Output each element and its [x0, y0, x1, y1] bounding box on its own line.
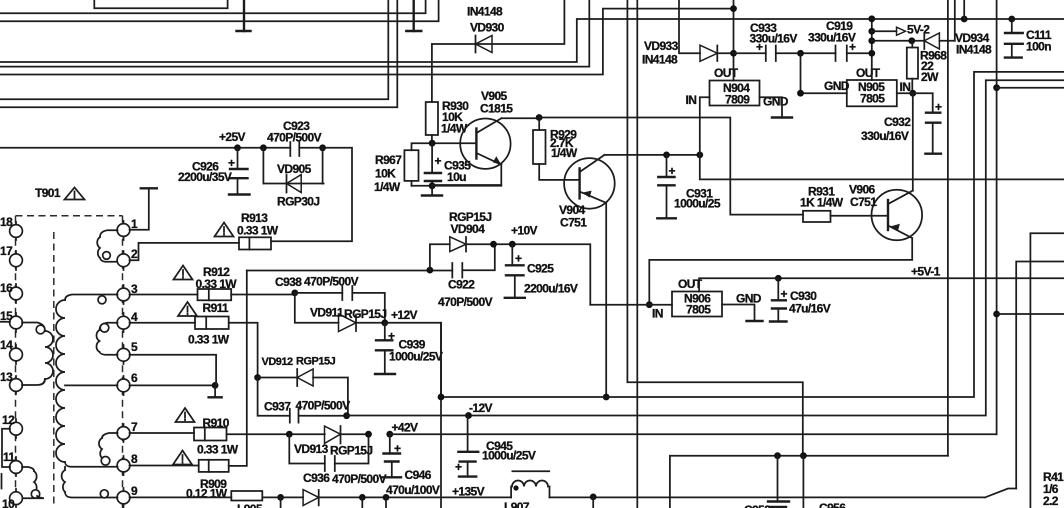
- wire collector rail to right edge: [700, 155, 1064, 180]
- svg-text:GND: GND: [824, 79, 850, 93]
- svg-text:17: 17: [0, 244, 13, 258]
- svg-text:5V-2: 5V-2: [907, 23, 930, 37]
- wire R968/VD934 line: [872, 40, 925, 42]
- svg-text:C751: C751: [850, 195, 877, 209]
- pin 1: [123, 221, 125, 240]
- diode VD904 RGP15J: [430, 210, 590, 305]
- pin 7: [123, 424, 125, 442]
- svg-text:VD913: VD913: [294, 442, 329, 456]
- svg-text:14: 14: [0, 338, 13, 352]
- bottom rail from pin9: [130, 496, 232, 498]
- capacitor C945 1000u/25V: [452, 416, 536, 499]
- svg-text:11: 11: [3, 450, 15, 464]
- capacitor C937 470P/500V: [258, 378, 350, 423]
- svg-text:7: 7: [131, 420, 138, 434]
- svg-text:13: 13: [0, 370, 13, 384]
- svg-text:RGP15J: RGP15J: [344, 307, 386, 321]
- node bottom rail 3: [383, 494, 390, 501]
- svg-text:7805: 7805: [686, 303, 711, 317]
- ground symbol x414: [413, 0, 415, 31]
- winding S1 (pin3-pin8 main): [65, 295, 118, 301]
- winding S0 (pin1-pin2): [100, 230, 118, 237]
- resistor R912 0.33 1W: [130, 265, 295, 300]
- svg-text:GND: GND: [736, 292, 762, 306]
- capacitor C933 330u/16V: [734, 21, 836, 61]
- node N904 IN: [696, 152, 703, 159]
- diode bottom rail: [303, 490, 319, 506]
- wire pin15 to left edge: [0, 321, 10, 323]
- svg-text:VD905: VD905: [277, 162, 312, 176]
- transistor V904 C751: [559, 155, 615, 230]
- node -12V start: [343, 412, 350, 419]
- inductor L905 (partial): [231, 491, 262, 501]
- wire +12V to rail: [385, 323, 441, 397]
- svg-text:C956: C956: [819, 501, 846, 508]
- capacitor C919 330u/16V: [808, 19, 872, 61]
- winding P2 (pin11-pin10): [22, 467, 34, 471]
- svg-text:IN: IN: [900, 80, 911, 94]
- svg-text:C938: C938: [275, 275, 302, 289]
- svg-text:IN4148: IN4148: [642, 53, 678, 67]
- svg-text:C946: C946: [405, 468, 432, 482]
- svg-text:RGP15J: RGP15J: [296, 356, 336, 368]
- node +42V: [386, 431, 393, 438]
- svg-text:+: +: [669, 164, 676, 178]
- wire pin12-pin11 left link: [2, 429, 10, 467]
- chassis bar above pin1: [141, 187, 157, 189]
- svg-text:6: 6: [131, 371, 138, 385]
- svg-text:C952: C952: [744, 503, 771, 508]
- pin 8: [123, 456, 125, 475]
- node N905 IN: [909, 90, 916, 97]
- svg-text:0.33 1W: 0.33 1W: [188, 333, 230, 347]
- wire pin6 to ground: [130, 384, 216, 386]
- transformer dashed boundary: [16, 215, 123, 217]
- resistor R913 0.33 1W: [237, 211, 279, 250]
- warning triangle R912: [174, 266, 193, 280]
- svg-text:VD904: VD904: [451, 222, 486, 236]
- wire V905 collector line to V906 base leg: [539, 118, 803, 215]
- winding S4 (pin8-pin9): [62, 470, 65, 492]
- svg-text:R911: R911: [203, 301, 230, 315]
- svg-text:C751: C751: [560, 216, 587, 230]
- rail +5V-2 vertical stubs at top right: [947, 0, 949, 456]
- warning triangle R911: [178, 302, 197, 316]
- wire +12V rail: [441, 72, 1064, 397]
- svg-text:+: +: [935, 100, 942, 114]
- wire bus B2: [0, 0, 589, 67]
- wire N904 IN leg: [700, 97, 710, 155]
- svg-text:18: 18: [0, 215, 13, 229]
- transformer core dashed line: [53, 232, 55, 508]
- svg-text:VD930: VD930: [470, 21, 505, 35]
- transistor V906 C751: [849, 183, 922, 241]
- node V905 base: [429, 140, 436, 147]
- svg-text:0.33 1W: 0.33 1W: [237, 224, 279, 238]
- diode VD930 IN4148: [432, 0, 564, 53]
- svg-text:L905: L905: [237, 502, 263, 508]
- regulator N906 7805: [652, 277, 762, 321]
- pin 2: [123, 251, 125, 270]
- svg-text:IN4148: IN4148: [956, 43, 992, 57]
- svg-text:C922: C922: [448, 278, 475, 292]
- big block border corner right: [1030, 233, 1064, 508]
- wire long vertical A (to line A): [627, 0, 802, 456]
- svg-text:10u: 10u: [447, 170, 466, 184]
- svg-text:12: 12: [2, 413, 15, 427]
- svg-text:+: +: [228, 156, 235, 170]
- capacitor C938 470P/500V: [275, 275, 385, 323]
- svg-text:5: 5: [131, 340, 138, 354]
- warning triangle T901: [65, 188, 85, 200]
- wire V904 collector line: [605, 154, 700, 156]
- wire V906 collector leg: [912, 93, 914, 190]
- winding S2 (pin4-pin5): [100, 323, 118, 330]
- capacitor C931 1000u/25: [657, 152, 721, 219]
- wire stub left edge lower: [1, 474, 3, 489]
- wire bus B1 to +5V-2 rail: [0, 19, 1064, 62]
- pin 12: [15, 419, 17, 438]
- svg-text:RGP15J: RGP15J: [330, 444, 372, 458]
- wire pin5 to ground node: [130, 355, 217, 386]
- capacitor C952 (partial bottom): [744, 456, 789, 508]
- resistor R909 0.12 1W: [130, 271, 247, 501]
- svg-text:330u/16V: 330u/16V: [861, 129, 909, 143]
- svg-text:RGP30J: RGP30J: [277, 195, 319, 209]
- resistor R930 10K 1/4W: [426, 44, 470, 143]
- capacitor C930 47u/16V: [770, 275, 831, 322]
- node C938/VD911 left: [291, 290, 298, 297]
- node V905 emitter: [429, 182, 436, 189]
- wire bus line y21: [0, 0, 439, 21]
- svg-text:10K: 10K: [375, 167, 396, 181]
- resistor R931 1K 1/4W: [800, 185, 888, 223]
- svg-text:7809: 7809: [725, 93, 750, 107]
- svg-text:VD912: VD912: [262, 356, 294, 368]
- svg-text:1K 1/4W: 1K 1/4W: [800, 196, 844, 210]
- pin 5: [123, 345, 125, 364]
- svg-text:L907: L907: [504, 500, 530, 508]
- svg-text:47u/16V: 47u/16V: [789, 302, 831, 316]
- svg-text:VD933: VD933: [644, 39, 679, 53]
- capacitor C925 2200u/16V: [505, 244, 578, 298]
- svg-text:7805: 7805: [860, 92, 885, 106]
- svg-text:IN: IN: [652, 307, 663, 321]
- svg-text:1/4W: 1/4W: [551, 146, 578, 160]
- svg-text:+: +: [394, 442, 401, 456]
- svg-text:470P/500V: 470P/500V: [267, 131, 322, 145]
- capacitor C939 1000u/25V: [375, 323, 443, 374]
- wire corner y99: [0, 0, 388, 99]
- pin 14: [15, 345, 17, 364]
- winding P1 (pin15-pin13): [22, 323, 45, 332]
- capacitor C922 470P/500V: [438, 244, 495, 309]
- capacitor C926 2200u/35V: [178, 148, 250, 195]
- pin 13: [15, 376, 17, 394]
- svg-text:15: 15: [0, 309, 13, 323]
- capacitor C946 470u/100V: [382, 434, 440, 497]
- node bottom rail 4: [590, 494, 597, 501]
- regulator N904 7809: [686, 66, 789, 109]
- svg-text:+10V: +10V: [511, 224, 538, 238]
- svg-text:C932: C932: [884, 115, 911, 129]
- svg-text:2200u/35V: 2200u/35V: [178, 170, 232, 184]
- wire +10V into IN node: [590, 304, 672, 306]
- svg-text:8: 8: [131, 452, 138, 466]
- wire corner y107: [0, 0, 397, 107]
- diode VD934 IN4148: [924, 0, 992, 57]
- resistor R929 2.7K 1/4W: [533, 118, 580, 180]
- inductor L907: [504, 471, 550, 508]
- svg-text:470P/500V: 470P/500V: [296, 399, 351, 413]
- wire bottom rail rise to right riser: [985, 489, 1016, 498]
- warning triangle R910: [176, 408, 195, 422]
- wire N906 GND to ground: [722, 305, 755, 322]
- svg-text:2: 2: [131, 247, 138, 261]
- svg-text:1/4W: 1/4W: [441, 122, 468, 136]
- pin 10: [15, 489, 17, 507]
- +25V rail: [0, 130, 352, 241]
- svg-text:+42V: +42V: [392, 421, 419, 435]
- svg-text:VD911: VD911: [310, 306, 344, 320]
- capacitor C923 470P/500V: [267, 119, 322, 156]
- svg-text:330u/16V: 330u/16V: [750, 32, 798, 46]
- svg-text:R967: R967: [375, 153, 402, 167]
- wire N904 GND to ground: [760, 97, 783, 117]
- resistor R968 22 2W: [907, 41, 947, 93]
- svg-text:470P/500V: 470P/500V: [304, 275, 359, 289]
- warning triangle R913: [215, 223, 234, 237]
- label 5V-2 with arrow: [872, 23, 930, 37]
- wire +42V riser to right edge taps: [996, 0, 998, 434]
- svg-text:1000u/25V: 1000u/25V: [389, 350, 443, 364]
- svg-text:R910: R910: [203, 416, 230, 430]
- svg-text:C1815: C1815: [480, 102, 513, 116]
- svg-text:+5V-1: +5V-1: [911, 265, 941, 279]
- node VD912 left: [254, 374, 261, 381]
- svg-text:1000u/25V: 1000u/25V: [482, 449, 536, 463]
- diode VD911 RGP15J: [295, 293, 387, 332]
- capacitor C936 470P/500V: [289, 431, 386, 486]
- capacitor C956 (partial bottom): [803, 456, 846, 508]
- svg-text:10: 10: [2, 497, 15, 508]
- svg-text:OUT: OUT: [856, 66, 881, 80]
- wire N905 OUT leg: [871, 19, 873, 80]
- capacitor C932 330u/16V: [861, 93, 942, 154]
- diode VD912 RGP15J: [258, 356, 348, 416]
- wire +42V rail: [390, 433, 997, 435]
- node bottom rail 1: [277, 494, 284, 501]
- svg-text:2.2: 2.2: [1043, 494, 1059, 508]
- svg-text:2200u/16V: 2200u/16V: [524, 282, 578, 296]
- resistor R910 0.33 1W: [130, 416, 325, 457]
- diode VD905 RGP30J: [263, 148, 323, 209]
- pin 3: [123, 285, 125, 304]
- svg-text:T901: T901: [35, 186, 61, 200]
- diode VD933 IN4148: [642, 0, 734, 67]
- transistor V905 C1815: [432, 89, 539, 185]
- svg-text:9: 9: [131, 484, 138, 498]
- svg-text:330u/16V: 330u/16V: [808, 31, 856, 45]
- svg-text:470P/500V: 470P/500V: [438, 295, 493, 309]
- capacitor C111 100n: [1005, 16, 1052, 58]
- wire line E (+5V-2 feed): [670, 456, 948, 508]
- pin 11: [15, 457, 17, 476]
- svg-text:100n: 100n: [1026, 40, 1051, 54]
- svg-text:+25V: +25V: [219, 130, 246, 144]
- svg-text:OUT: OUT: [714, 66, 739, 80]
- winding S3 (pin7-pin8): [102, 433, 118, 438]
- partial component box top-left: [94, 0, 227, 8]
- wire pin6 tap: [65, 384, 118, 386]
- capacitor C935 10u: [425, 143, 471, 186]
- wire V906 emitter to N906 IN: [649, 238, 912, 305]
- pin 15: [15, 313, 17, 332]
- svg-text:+: +: [435, 154, 442, 168]
- wire pin2 to R913: [130, 243, 240, 260]
- svg-text:16: 16: [0, 281, 13, 295]
- resistor R967 10K 1/4W: [374, 143, 501, 194]
- svg-text:+135V: +135V: [452, 485, 485, 499]
- ground symbol x244: [243, 0, 245, 31]
- node bottom rail 2: [359, 494, 366, 501]
- svg-text:+: +: [388, 329, 395, 343]
- pin 17: [15, 251, 17, 270]
- node N906 IN: [646, 301, 653, 308]
- svg-text:0.33 1W: 0.33 1W: [197, 443, 239, 457]
- wire C933/C919 node to N905 GND: [801, 53, 847, 93]
- svg-text:1/4W: 1/4W: [374, 180, 401, 194]
- svg-text:-12V: -12V: [469, 401, 493, 415]
- svg-text:C925: C925: [527, 262, 554, 276]
- ground symbol V905: [431, 186, 433, 196]
- resistor R911 0.33 1W: [130, 301, 258, 378]
- pin 6: [123, 376, 125, 395]
- svg-text:0.33 1W: 0.33 1W: [196, 277, 238, 291]
- pin 18: [15, 222, 17, 240]
- svg-text:+: +: [455, 460, 462, 474]
- svg-text:1000u/25: 1000u/25: [674, 197, 721, 211]
- wire pin1 to raised bar: [130, 188, 149, 229]
- svg-text:C936: C936: [303, 471, 330, 485]
- ground symbol pin6: [214, 385, 216, 397]
- svg-text:C937: C937: [264, 400, 291, 414]
- diode VD913 RGP15J: [286, 426, 373, 458]
- svg-text:IN: IN: [686, 93, 697, 107]
- regulator N905 7805: [824, 66, 910, 106]
- svg-text:470u/100V: 470u/100V: [386, 483, 440, 497]
- warning triangle R909: [173, 451, 192, 465]
- wire V904 emitter to +12V rail: [605, 203, 607, 397]
- node VD904 anode line: [247, 270, 452, 272]
- resistor R41x label fragment: [1043, 470, 1064, 508]
- wire N906 OUT leg to +5V-1 rail: [699, 278, 1064, 291]
- wire bus line y13: [0, 0, 426, 13]
- pin 4: [123, 313, 125, 332]
- svg-text:470P/500V: 470P/500V: [332, 472, 387, 486]
- svg-text:+: +: [515, 252, 522, 266]
- svg-text:0.12 1W: 0.12 1W: [186, 487, 228, 501]
- wire bus B3 to N904 out: [0, 9, 734, 75]
- node +12V: [381, 319, 388, 326]
- wire N904 OUT leg: [733, 0, 735, 81]
- wire -12V rail: [347, 80, 1064, 415]
- svg-text:+: +: [781, 287, 788, 301]
- pin 16: [15, 284, 17, 303]
- pin 9: [123, 488, 125, 507]
- svg-text:+12V: +12V: [391, 308, 418, 322]
- wire long vertical B: [636, 0, 638, 508]
- svg-text:IN4148: IN4148: [467, 5, 503, 19]
- svg-text:2W: 2W: [921, 70, 939, 84]
